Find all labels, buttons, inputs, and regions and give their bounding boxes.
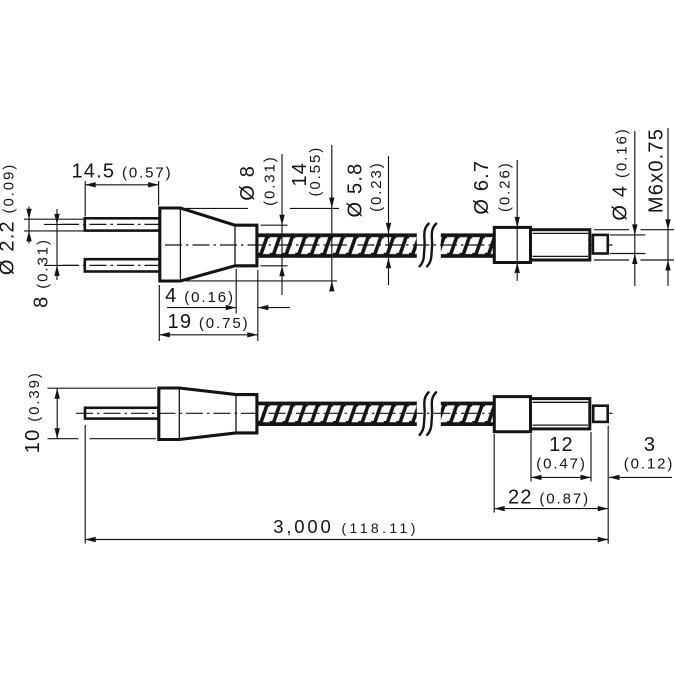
dimension 14.5 (0.57) prong length	[71, 160, 172, 216]
sleeve Ø6.7 (top view)	[494, 227, 530, 262]
svg-text:8 (0.31): 8 (0.31)	[31, 238, 53, 308]
svg-text:19 (0.75): 19 (0.75)	[168, 311, 250, 333]
prong B centerline	[62, 264, 171, 266]
svg-text:M6x0.75: M6x0.75	[646, 128, 668, 213]
dimension Ø 2.2 (0.09) prong diameter	[0, 163, 84, 275]
dimension Ø 6.7 (0.26) sleeve diameter	[471, 160, 520, 281]
svg-text:(0.31): (0.31)	[262, 155, 279, 206]
prong A centerline	[62, 223, 171, 225]
threaded stud (bottom view)	[531, 399, 590, 429]
dimension Ø 8 (0.31) ferrule neck diameter	[237, 154, 288, 295]
svg-text:Ø 8: Ø 8	[237, 165, 259, 201]
dimension M6x0.75 thread	[594, 128, 674, 286]
tip (bottom view)	[593, 406, 608, 422]
dimension 4 (0.16) ferrule neck length	[165, 269, 290, 341]
sleeve (bottom view)	[494, 397, 530, 432]
dimension 22 (0.87) end assembly length	[494, 434, 608, 513]
ferrule / connector body (top view)	[160, 208, 257, 281]
prong B (bottom fork arm)	[85, 259, 160, 271]
svg-text:(0.47): (0.47)	[536, 456, 587, 473]
cable break symbol (top view)	[417, 224, 441, 267]
svg-text:Ø 4 (0.16): Ø 4 (0.16)	[610, 127, 632, 220]
svg-text:3,000 (118.11): 3,000 (118.11)	[273, 516, 419, 537]
dimension 3 (0.12) tip length	[609, 434, 674, 480]
svg-text:3: 3	[644, 434, 656, 456]
dimension 8 (0.31) prong spacing	[31, 209, 60, 308]
threaded stud M6 (top view)	[531, 230, 590, 260]
spiral sheathed cable (bottom view)	[257, 402, 494, 426]
svg-text:(0.26): (0.26)	[497, 161, 514, 212]
spiral sheathed cable (top view)	[257, 233, 494, 257]
main centerline (top view)	[165, 244, 613, 246]
ferrule / connector body (bottom view)	[159, 388, 257, 440]
svg-text:Ø 5.8: Ø 5.8	[345, 163, 367, 218]
dimension Ø 5.8 (0.23) cable diameter	[345, 156, 392, 285]
dimension Ø 4 (0.16) tip diameter	[610, 127, 646, 286]
svg-text:(0.23): (0.23)	[368, 161, 385, 212]
svg-text:(0.55): (0.55)	[307, 146, 324, 197]
dimension 14 (0.55) ferrule body diameter	[186, 145, 339, 291]
cable break symbol (bottom view)	[417, 392, 441, 435]
rod (single fiber end)	[85, 408, 159, 419]
svg-text:12: 12	[549, 434, 574, 456]
svg-text:Ø 6.7: Ø 6.7	[471, 160, 493, 215]
svg-text:14.5 (0.57): 14.5 (0.57)	[71, 160, 172, 182]
svg-text:(0.12): (0.12)	[624, 456, 675, 473]
svg-text:4 (0.16): 4 (0.16)	[165, 285, 235, 307]
dimension 3,000 (118.11) overall length	[85, 425, 608, 544]
svg-text:Ø 2.2 (0.09): Ø 2.2 (0.09)	[0, 163, 19, 275]
main centerline (bottom view)	[76, 412, 613, 414]
dimension 10 (0.39) ferrule diameter	[22, 371, 156, 453]
svg-text:10 (0.39): 10 (0.39)	[22, 371, 44, 453]
leader lines at prong centers	[44, 224, 78, 265]
svg-text:22 (0.87): 22 (0.87)	[508, 487, 590, 509]
extension line shared by 3 / 22 / 3000 dimensions	[607, 426, 609, 544]
tip Ø4 (top view)	[593, 235, 608, 254]
dimension 12 (0.47) stud length	[531, 432, 591, 482]
prong A (top fork arm)	[85, 218, 160, 230]
dimension 19 (0.75) ferrule length	[159, 285, 257, 341]
